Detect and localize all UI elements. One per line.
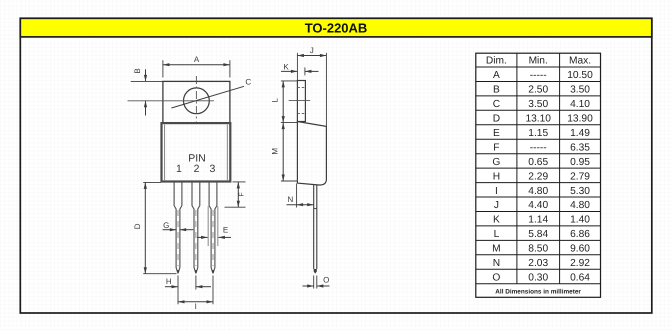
lead pin 1 front: tip fill [177,270,179,273]
dimension O extension lines [313,276,315,289]
svg-text:N: N [493,258,500,269]
front view: body inner left line [164,125,166,181]
lead pin 3 front: centerline [212,210,214,266]
table row M [476,254,601,256]
front view: horizontal centerline / B extension [128,100,214,102]
svg-text:8.50: 8.50 [528,244,548,255]
svg-text:3.50: 3.50 [570,85,590,96]
svg-text:0.95: 0.95 [570,157,590,168]
table row B [476,95,601,97]
svg-text:2.79: 2.79 [570,171,590,182]
svg-text:M: M [271,148,280,155]
table row F [476,153,601,155]
svg-text:J: J [310,46,314,55]
dimension H line with arrows [165,286,178,288]
svg-text:2: 2 [194,163,200,175]
table row H [476,182,601,184]
svg-text:4.80: 4.80 [528,186,548,197]
svg-text:K: K [283,62,289,71]
dimension B tab-top extension line [131,80,163,82]
svg-text:H: H [166,277,172,286]
svg-text:2.03: 2.03 [528,258,548,269]
svg-text:B: B [133,68,142,73]
lead pin 3 front: outline [209,182,213,274]
side view: lead tip solder dip [314,269,317,274]
svg-text:D: D [493,114,500,125]
table row I [476,196,601,198]
side view: lead bend tick [314,208,317,210]
svg-text:2.29: 2.29 [528,171,548,182]
dimension K line with arrows [281,70,297,72]
svg-text:A: A [194,55,200,64]
lead pin 2 front: tip fill [195,270,197,273]
dimension E gray extension lines on pin 3 [207,206,209,246]
svg-text:B: B [493,85,500,96]
side view: hole hidden edge top (dashed) [297,86,305,88]
table row D [476,124,601,126]
table column divider 1 [516,53,518,284]
svg-text:2.50: 2.50 [528,85,548,96]
table row K [476,225,601,227]
svg-text:2.92: 2.92 [570,258,590,269]
dimension D lower extension line [143,273,176,275]
svg-text:6.35: 6.35 [570,142,590,153]
svg-text:-----: ----- [530,142,547,153]
svg-text:4.40: 4.40 [528,200,548,211]
svg-text:L: L [494,229,500,240]
dimension N extension line [296,184,298,208]
svg-text:I: I [195,302,197,311]
lead pin 1 front: centerline [177,210,179,266]
svg-text:All Dimensions in millimeter: All Dimensions in millimeter [495,288,581,295]
table header row [476,66,601,68]
svg-text:13.10: 13.10 [525,114,551,125]
lead pin 2 front: outline [192,182,196,274]
svg-text:E: E [493,128,500,139]
svg-text:D: D [133,223,142,229]
svg-text:G: G [163,221,169,230]
lead pin 2 front: centerline [195,210,197,266]
pin tip extension line 3 [212,276,214,305]
front view: body outline [162,123,231,181]
dimension L top extension line [281,80,297,82]
table row O [476,283,601,285]
svg-text:3: 3 [209,163,215,175]
svg-text:10.50: 10.50 [567,70,593,81]
svg-text:5.30: 5.30 [570,186,590,197]
svg-text:4.10: 4.10 [570,99,590,110]
svg-text:I: I [495,186,498,197]
side view: hole hidden edge bottom (dashed) [297,112,305,114]
dimension K tick [304,67,306,75]
svg-text:6.86: 6.86 [570,229,590,240]
table row J [476,211,601,213]
svg-text:G: G [492,157,500,168]
dimension D line with arrows [144,182,146,273]
dimension G line with arrows [163,229,177,231]
svg-text:TO-220AB: TO-220AB [305,20,368,35]
side view: body outline [297,122,326,186]
table row L [476,239,601,241]
dimension E line with arrows [197,236,208,238]
dimension J extension lines [296,53,298,81]
svg-text:1.40: 1.40 [570,215,590,226]
svg-text:F: F [238,192,245,196]
svg-text:1.15: 1.15 [528,128,548,139]
svg-text:H: H [493,171,500,182]
dimension C leader line [171,86,244,108]
svg-text:3.50: 3.50 [528,99,548,110]
dimension F line with arrows [237,182,239,207]
dimension O line with arrows [303,285,314,287]
svg-text:A: A [493,70,500,81]
svg-text:O: O [323,276,329,285]
dimension L/M middle extension line [281,122,297,124]
lead pin 1 front: outline [174,182,178,274]
dimension D upper extension line [143,181,161,183]
svg-text:0.64: 0.64 [570,273,590,284]
svg-text:13.90: 13.90 [567,114,593,125]
svg-text:J: J [494,200,499,211]
dimension M line with arrows [282,123,284,181]
dimension A extension lines [162,60,164,77]
dimension F upper extension line [233,181,246,183]
dimension J line with arrows [297,55,326,57]
svg-text:-----: ----- [530,70,547,81]
side view: lead outline [313,185,315,269]
front view: body inner right line [226,125,228,181]
side view: tab outline [297,81,305,122]
svg-text:Dim.: Dim. [486,55,507,66]
svg-text:C: C [245,78,251,87]
table row G [476,167,601,169]
dimension N line with arrows [287,204,314,206]
dimension F lower extension line [225,206,246,208]
pin tip extension line 2 [195,276,197,290]
svg-text:N: N [288,195,294,204]
table row N [476,268,601,270]
dimension table outer border [476,53,601,297]
lead pin 3 front: tip fill [212,270,214,273]
front view: mounting hole [184,88,210,114]
svg-text:4.80: 4.80 [570,200,590,211]
svg-text:E: E [223,226,228,235]
svg-text:M: M [492,244,501,255]
dimension I line with arrows [178,301,213,303]
dimension M bottom extension line [281,180,297,182]
dimension A line with arrows [163,64,230,66]
svg-text:5.84: 5.84 [528,229,548,240]
svg-text:L: L [271,97,280,102]
table row A [476,81,601,83]
svg-text:1.49: 1.49 [570,128,590,139]
dimension B upper arrow [145,69,147,81]
svg-text:O: O [492,273,500,284]
svg-text:9.60: 9.60 [570,244,590,255]
table column divider 2 [559,53,561,284]
dimension L line with arrows [282,81,284,123]
svg-text:C: C [493,99,500,110]
dimension B lower arrow [145,101,147,116]
front view: mounting tab outline [163,81,230,123]
table row E [476,138,601,140]
pin tip extension line 1 [177,276,179,305]
table row C [476,109,601,111]
svg-text:1.14: 1.14 [528,215,548,226]
svg-text:0.30: 0.30 [528,273,548,284]
svg-text:Min.: Min. [529,55,548,66]
front view: vertical centerline [195,76,197,122]
svg-text:K: K [493,215,500,226]
title bar TO-220AB [20,18,652,37]
svg-text:Max.: Max. [569,55,591,66]
svg-text:0.65: 0.65 [528,157,548,168]
svg-text:F: F [493,142,499,153]
svg-text:1: 1 [176,163,182,175]
side view: hole centerline [289,100,311,102]
